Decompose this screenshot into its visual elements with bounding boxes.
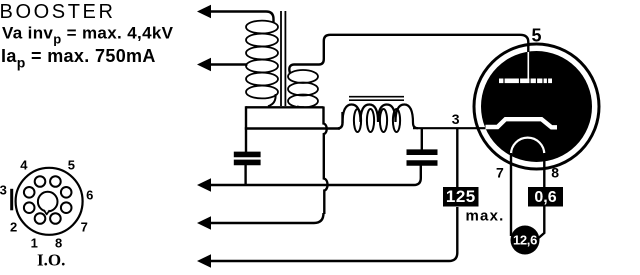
svg-text:7: 7 bbox=[496, 165, 504, 181]
terminal arrow A1 (transformer primary top) bbox=[197, 5, 211, 18]
socket pin hole 4 bbox=[35, 176, 46, 187]
svg-text:I.O.: I.O. bbox=[37, 250, 65, 269]
value circle 12,6 bbox=[511, 226, 540, 255]
wire from node 3 down to 125 box bbox=[456, 128, 458, 188]
heater leg pin 8 bbox=[539, 153, 545, 238]
tube V1 anode bar bbox=[499, 79, 552, 84]
wire left vertical from bus to C1 bbox=[245, 106, 247, 152]
wire secondary top lead to tube pin 5 bbox=[289, 35, 528, 73]
socket pin hole 1 bbox=[35, 213, 46, 224]
wire arrow A1 to primary top bbox=[209, 12, 274, 23]
svg-text:0,6: 0,6 bbox=[534, 189, 556, 206]
wire secondary bottom lead bbox=[297, 106, 304, 109]
transformer T1 primary winding bbox=[246, 21, 278, 99]
socket pin hole 2 bbox=[24, 202, 35, 213]
socket center key hole bbox=[38, 192, 58, 212]
socket pin hole 5 bbox=[50, 176, 61, 187]
inductor L1 core bar bbox=[349, 96, 404, 98]
tube V1 heater arc bbox=[511, 138, 544, 155]
tube V1 plate lead inside bbox=[527, 52, 529, 79]
capacitor C1 top plate bbox=[234, 152, 261, 158]
tube V1 anode body bbox=[481, 51, 592, 162]
capacitor C2 top lead bbox=[421, 128, 423, 152]
socket pin hole 6 bbox=[61, 187, 72, 198]
tube V1 cathode bbox=[486, 119, 558, 127]
socket pin hole 3 bbox=[24, 187, 35, 198]
wire primary bottom lead bbox=[268, 94, 276, 106]
wire B vertical from bus bar with crossover hops bbox=[324, 107, 328, 215]
svg-text:1: 1 bbox=[31, 236, 38, 251]
terminal arrow A3 bbox=[197, 178, 211, 191]
svg-text:8: 8 bbox=[551, 165, 559, 181]
svg-text:7: 7 bbox=[81, 220, 88, 235]
svg-text:5: 5 bbox=[68, 158, 75, 173]
node line from C1 branch to inductor bbox=[245, 127, 340, 129]
terminal arrow A2 (transformer primary tap) bbox=[197, 58, 211, 71]
socket pin hole 8 bbox=[50, 213, 61, 224]
wire bus bar under transformer bbox=[246, 106, 324, 108]
transformer T1 core bbox=[280, 11, 282, 106]
socket pin hole 7 bbox=[61, 202, 72, 213]
svg-text:BOOSTER: BOOSTER bbox=[0, 1, 116, 23]
value box 0,6 bbox=[528, 187, 563, 207]
transformer T1 secondary winding bbox=[288, 70, 318, 108]
svg-text:5: 5 bbox=[532, 26, 542, 46]
node 3 line from inductor to tube cathode bbox=[413, 127, 486, 129]
svg-text:3: 3 bbox=[0, 183, 7, 198]
svg-text:4: 4 bbox=[20, 158, 28, 173]
terminal arrow A5 bbox=[197, 254, 211, 267]
svg-text:8: 8 bbox=[55, 236, 62, 251]
socket index bar bbox=[10, 189, 13, 211]
socket base outline bbox=[16, 168, 83, 235]
wire A5 to 125 box vertical bbox=[209, 207, 457, 261]
capacitor C2 bottom plate bbox=[407, 160, 438, 166]
svg-text:max.: max. bbox=[466, 208, 505, 225]
wire rise into inductor L1 bbox=[338, 112, 343, 129]
svg-text:6: 6 bbox=[86, 188, 93, 203]
inductor L1 winding bbox=[343, 105, 419, 129]
capacitor C2 top plate bbox=[407, 149, 438, 155]
svg-text:3: 3 bbox=[452, 111, 460, 127]
value box 125 bbox=[443, 187, 479, 207]
wire C1 bottom lead bbox=[244, 165, 246, 186]
heater leg pin 7 bbox=[510, 153, 512, 236]
wire A4 to transformer bottom vertical bbox=[209, 213, 324, 223]
capacitor C1 bottom plate bbox=[234, 160, 261, 166]
tube V1 envelope bbox=[474, 44, 599, 169]
svg-text:125: 125 bbox=[446, 187, 476, 206]
terminal arrow A4 bbox=[197, 216, 211, 229]
socket key notch bbox=[44, 210, 50, 214]
svg-text:12,6: 12,6 bbox=[513, 233, 537, 248]
wire arrow A2 to primary tap bbox=[209, 63, 248, 65]
svg-text:2: 2 bbox=[10, 220, 17, 235]
wire A3 horizontal to C2 bottom bbox=[209, 166, 421, 186]
